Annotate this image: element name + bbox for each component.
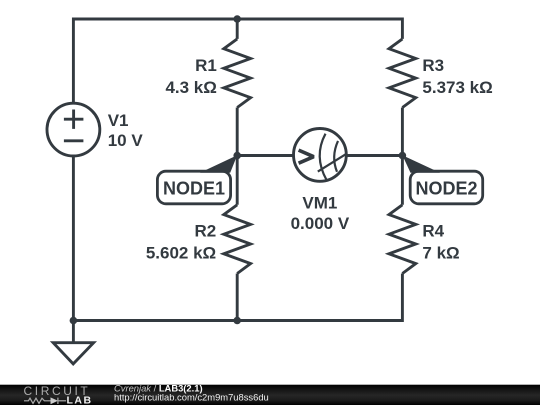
svg-text:NODE2: NODE2 (415, 178, 477, 198)
svg-text:5.373 kΩ: 5.373 kΩ (422, 78, 492, 97)
svg-text:R2: R2 (194, 221, 216, 240)
wire: horizontal through voltmeter VM1 (237, 154, 402, 157)
resistor R4 (389, 205, 416, 274)
svg-text:VM1: VM1 (302, 194, 337, 213)
svg-text:R4: R4 (422, 221, 444, 240)
node dot: top junction (233, 15, 241, 23)
node dot: bottom middle junction (233, 317, 241, 325)
svg-text:10 V: 10 V (108, 131, 144, 150)
svg-text:4.3 kΩ: 4.3 kΩ (165, 78, 216, 97)
CircuitLab logo diode triangle (51, 397, 58, 404)
ground (53, 343, 93, 364)
V1 minus sign (64, 139, 84, 142)
svg-text:0.000 V: 0.000 V (291, 214, 350, 233)
wire: right column between R3 and R4 (401, 108, 404, 205)
wire: middle column R2 bottom to bottom rail (236, 274, 239, 321)
wire: V1 bottom down to bottom rail, across, up to R4 bottom (73, 156, 402, 321)
CircuitLab logo schematic glyph (resistor + diode) (24, 398, 66, 404)
node dot: ground junction (70, 317, 78, 325)
svg-text:5.602 kΩ: 5.602 kΩ (146, 243, 216, 262)
wire: middle column R1 top stub (236, 19, 239, 39)
footer bar (0, 385, 540, 405)
svg-text:R3: R3 (422, 56, 444, 75)
resistor R2 (224, 205, 251, 274)
wire: top rail from V1 top, across to R3 top (73, 19, 402, 104)
node NODE1 label box (157, 155, 237, 204)
wire: ground stub below bottom-left node (72, 321, 75, 343)
svg-text:http://circuitlab.com/c2m9m7u8: http://circuitlab.com/c2m9m7u8ss6du (114, 392, 269, 403)
voltmeter VM1 meter arcs and needle (318, 134, 346, 180)
V1 plus sign (64, 110, 84, 129)
node dot: NODE1 junction (233, 152, 241, 160)
svg-text:LAB: LAB (67, 395, 93, 405)
wire: middle column between R1 and R2 (236, 108, 239, 205)
svg-text:7 kΩ: 7 kΩ (422, 243, 459, 262)
resistor R3 (389, 39, 416, 108)
voltmeter VM1 greater-than mark (299, 150, 314, 163)
voltmeter VM1 body (294, 129, 347, 182)
svg-text:NODE1: NODE1 (163, 178, 225, 198)
svg-text:V1: V1 (108, 111, 129, 130)
resistor R1 (224, 39, 251, 108)
svg-text:R1: R1 (195, 56, 217, 75)
voltage source V1 body (47, 103, 100, 156)
node dot: NODE2 junction (399, 152, 407, 160)
node NODE2 label box (402, 155, 482, 204)
